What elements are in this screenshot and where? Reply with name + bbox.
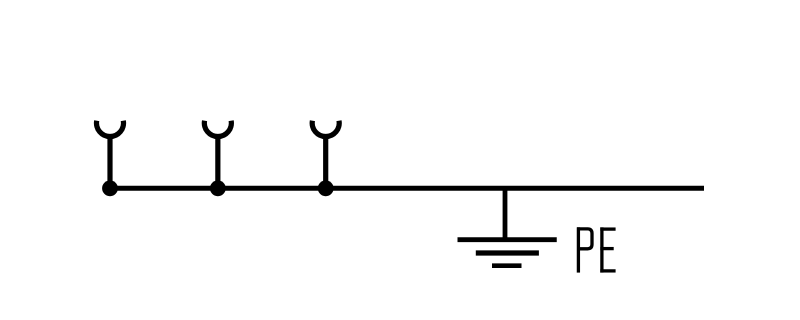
label PE: letter P xyxy=(577,227,592,272)
terminal clamp 1 stem wire xyxy=(107,135,112,189)
ground stem wire xyxy=(503,188,508,240)
terminal clamp 3 arc xyxy=(312,121,339,137)
terminal clamp 3 stem wire xyxy=(323,135,328,189)
ground bar 2 xyxy=(476,250,539,255)
ground bar 3 xyxy=(492,263,522,268)
junction node 1 xyxy=(102,180,118,196)
terminal clamp 1 arc xyxy=(97,121,124,137)
terminal clamp 2 stem wire xyxy=(215,135,220,189)
junction node 3 xyxy=(318,180,334,196)
label PE: letter E xyxy=(600,227,615,272)
terminal clamp 2 arc xyxy=(204,121,231,137)
junction node 2 xyxy=(210,180,226,196)
wire (PE bus) xyxy=(110,186,704,191)
ground bar 1 xyxy=(458,237,557,242)
